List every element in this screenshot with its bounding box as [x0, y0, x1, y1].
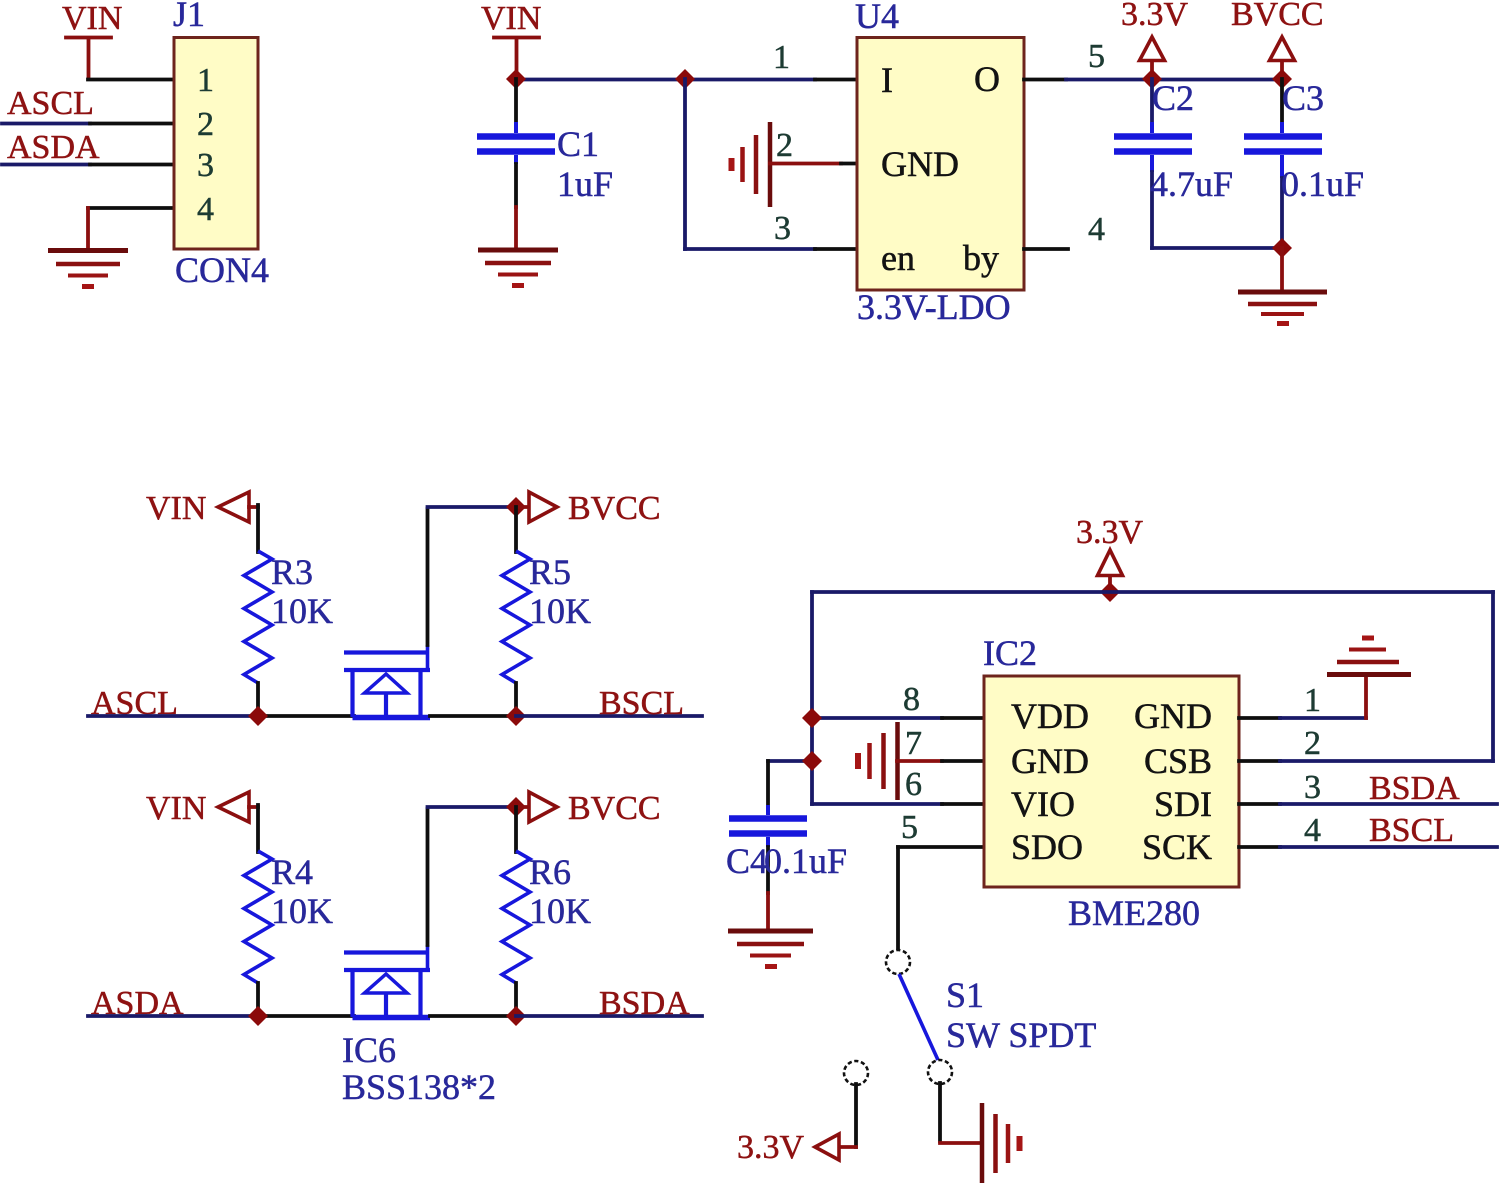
svg-text:U4: U4 — [855, 0, 899, 36]
junction — [802, 751, 822, 771]
svg-text:0.1uF: 0.1uF — [764, 841, 847, 881]
wire R5 to BSCL — [514, 683, 518, 716]
svg-text:S1: S1 — [946, 975, 984, 1015]
transistor Q2 (BSS138 half, IC6) — [344, 945, 430, 1018]
wire SDO pin 5 — [898, 847, 984, 951]
junction — [506, 797, 526, 817]
svg-text:1: 1 — [773, 39, 790, 76]
wire ASCL — [88, 714, 354, 718]
connector J1 — [174, 38, 258, 250]
svg-text:IC6: IC6 — [342, 1030, 396, 1070]
switch S1 second throw node — [844, 1061, 868, 1085]
svg-text:C2: C2 — [1152, 78, 1194, 118]
power port VIN (arrow left) — [218, 492, 258, 522]
svg-text:BME280: BME280 — [1068, 893, 1200, 933]
svg-text:5: 5 — [901, 809, 918, 846]
svg-text:4.7uF: 4.7uF — [1150, 164, 1233, 204]
wire SDI pin 3 (BSDA) — [1239, 802, 1497, 806]
svg-text:8: 8 — [903, 681, 920, 718]
wire MOSFET to BSCL junction — [430, 714, 516, 718]
junction — [248, 1006, 268, 1026]
wire MOSFET to BSDA junction — [430, 1014, 516, 1018]
wire BSDA — [516, 1014, 702, 1018]
svg-text:3: 3 — [774, 210, 791, 247]
wire ASDA — [88, 1014, 354, 1018]
svg-text:6: 6 — [905, 766, 922, 803]
junction — [506, 69, 526, 89]
svg-text:VIN: VIN — [146, 490, 206, 527]
svg-text:VIN: VIN — [62, 0, 122, 37]
resistor R3 — [244, 551, 272, 683]
svg-text:C3: C3 — [1282, 78, 1324, 118]
junction — [506, 1006, 526, 1026]
svg-text:ASCL: ASCL — [7, 85, 94, 122]
svg-text:J1: J1 — [173, 0, 205, 34]
svg-text:by: by — [963, 238, 999, 278]
ground (C2 C3) — [1238, 292, 1327, 324]
svg-text:VIN: VIN — [481, 0, 541, 37]
wire throw to ground — [940, 1083, 982, 1143]
svg-text:SDI: SDI — [1154, 784, 1212, 824]
wire BVCC to R6 — [514, 807, 518, 852]
wire VIN to en (pin 3) — [685, 79, 857, 249]
power port BVCC (arrow right) — [516, 792, 557, 822]
svg-text:BSCL: BSCL — [599, 685, 684, 722]
switch S1 common node — [886, 950, 910, 974]
svg-text:CON4: CON4 — [175, 250, 269, 290]
svg-text:O: O — [974, 59, 1000, 99]
wire drain up to BVCC — [428, 507, 517, 645]
wire U4 pin 5 output — [1024, 78, 1282, 82]
wire left vertical — [810, 592, 814, 804]
wire C4 to rail — [768, 759, 812, 763]
svg-text:R6: R6 — [529, 852, 571, 892]
svg-text:GND: GND — [1134, 696, 1212, 736]
svg-text:en: en — [881, 238, 915, 278]
wire VIO pin 6 — [812, 802, 984, 806]
svg-text:2: 2 — [1304, 725, 1321, 762]
wire R4 to ASDA — [256, 983, 260, 1016]
power symbol VIN (bar) — [66, 38, 111, 80]
wire ASDA — [2, 163, 174, 167]
svg-text:BVCC: BVCC — [568, 490, 661, 527]
svg-text:VIO: VIO — [1011, 784, 1075, 824]
ground (IC2 pin 7, rotated left) — [858, 722, 898, 800]
ground (J1) — [48, 251, 128, 287]
svg-text:4: 4 — [197, 191, 214, 228]
svg-text:4: 4 — [1088, 211, 1105, 248]
power port BVCC (arrow right) — [516, 492, 557, 522]
junction — [248, 706, 268, 726]
switch S1 blade — [899, 974, 938, 1060]
junction — [802, 708, 822, 728]
resistor R4 — [244, 851, 272, 983]
wire BVCC to R5 — [514, 507, 518, 552]
capacitor C3 — [1244, 79, 1322, 248]
transistor Q1 (BSS138 half, IC6) — [344, 645, 430, 718]
svg-text:BSDA: BSDA — [1369, 770, 1460, 807]
power symbol VIN (bar) — [494, 38, 539, 80]
ground (C1) — [478, 250, 558, 286]
svg-text:IC2: IC2 — [983, 633, 1037, 673]
capacitor C4 — [729, 761, 807, 930]
wire throw to 3.3V — [839, 1084, 856, 1147]
wire ground to U4 pin 2 — [770, 162, 857, 166]
wire R3 to ASCL — [256, 683, 260, 716]
ground (U4 pin 2, rotated left) — [732, 122, 771, 207]
wire GND pin 1 — [1239, 676, 1366, 718]
svg-text:VIN: VIN — [146, 790, 206, 827]
junction — [675, 69, 695, 89]
svg-text:I: I — [881, 60, 893, 100]
svg-text:10K: 10K — [529, 591, 591, 631]
sensor IC2 — [984, 676, 1239, 887]
capacitor C1 — [477, 79, 555, 248]
svg-text:2: 2 — [776, 127, 793, 164]
wire drain up to BVCC — [428, 807, 517, 945]
svg-text:3.3V-LDO: 3.3V-LDO — [857, 287, 1011, 327]
svg-text:2: 2 — [197, 106, 214, 143]
svg-text:7: 7 — [905, 725, 922, 762]
svg-text:BSS138*2: BSS138*2 — [342, 1067, 496, 1107]
svg-text:3: 3 — [197, 147, 214, 184]
svg-text:R3: R3 — [271, 552, 313, 592]
svg-text:BSDA: BSDA — [599, 985, 690, 1022]
svg-text:SCK: SCK — [1142, 827, 1212, 867]
svg-text:GND: GND — [881, 144, 959, 184]
wire VDD pin 8 — [812, 716, 984, 720]
junction — [506, 706, 526, 726]
svg-text:BVCC: BVCC — [568, 790, 661, 827]
wire to U4 pin 1 — [685, 78, 857, 82]
wire VIN rail — [516, 78, 685, 82]
junction — [1272, 69, 1292, 89]
svg-text:CSB: CSB — [1144, 741, 1212, 781]
resistor R5 — [502, 551, 530, 683]
svg-text:BSCL: BSCL — [1369, 812, 1454, 849]
svg-text:ASDA: ASDA — [7, 129, 100, 166]
power symbol BVCC (arrow up) — [1270, 37, 1295, 79]
power port VIN (arrow left) — [218, 792, 258, 822]
svg-text:5: 5 — [1088, 38, 1105, 75]
wire VIN to R4 — [256, 805, 260, 852]
wire J1 pin4 — [88, 206, 174, 210]
power symbol 3.3V (arrow up) — [1140, 37, 1165, 79]
wire ASCL — [2, 122, 174, 126]
svg-text:R4: R4 — [271, 852, 313, 892]
wire to ground — [86, 208, 90, 249]
svg-text:1uF: 1uF — [557, 164, 613, 204]
power port 3.3V (arrow left) — [815, 1134, 839, 1160]
wire J1 pin1 — [88, 78, 174, 82]
svg-text:10K: 10K — [271, 891, 333, 931]
wire BSCL — [516, 714, 702, 718]
svg-text:BVCC: BVCC — [1231, 0, 1324, 33]
power symbol 3.3V (arrow up) — [1098, 550, 1123, 592]
svg-text:1: 1 — [197, 62, 214, 99]
svg-text:1: 1 — [1304, 682, 1321, 719]
svg-text:SW SPDT: SW SPDT — [946, 1015, 1096, 1055]
regulator U4 — [857, 38, 1024, 291]
junction — [1142, 69, 1162, 89]
ground (S1, rotated right) — [982, 1103, 1020, 1183]
wire CSB pin 2 — [1239, 592, 1493, 761]
wire to ground — [1280, 248, 1284, 291]
svg-text:GND: GND — [1011, 741, 1089, 781]
junction — [1100, 582, 1120, 602]
svg-text:10K: 10K — [271, 591, 333, 631]
capacitor C2 — [1114, 79, 1192, 248]
wire 3.3V rail top — [812, 590, 1493, 594]
svg-text:0.1uF: 0.1uF — [1281, 164, 1364, 204]
wire ground to pin 7 — [897, 759, 984, 763]
resistor R6 — [502, 851, 530, 983]
svg-text:3.3V: 3.3V — [737, 1129, 805, 1166]
switch S1 throw node — [928, 1060, 952, 1084]
svg-text:4: 4 — [1304, 812, 1321, 849]
svg-text:SDO: SDO — [1011, 827, 1083, 867]
svg-text:C4: C4 — [726, 841, 768, 881]
svg-text:3: 3 — [1304, 769, 1321, 806]
wire C2 to C3 bottom — [1152, 246, 1282, 250]
svg-text:VDD: VDD — [1011, 696, 1089, 736]
ground (IC2 pin 1, inverted) — [1327, 638, 1411, 675]
ground (C4) — [728, 931, 813, 967]
wire SCK pin 4 (BSCL) — [1239, 845, 1497, 849]
junction — [1272, 238, 1292, 258]
svg-text:3.3V: 3.3V — [1076, 514, 1144, 551]
svg-text:R5: R5 — [529, 552, 571, 592]
junction — [506, 497, 526, 517]
wire U4 pin 4 — [1024, 247, 1068, 251]
wire R6 to BSDA — [514, 983, 518, 1016]
wire VIN to R3 — [256, 505, 260, 552]
svg-text:C1: C1 — [557, 124, 599, 164]
svg-text:3.3V: 3.3V — [1121, 0, 1189, 33]
svg-text:10K: 10K — [529, 891, 591, 931]
